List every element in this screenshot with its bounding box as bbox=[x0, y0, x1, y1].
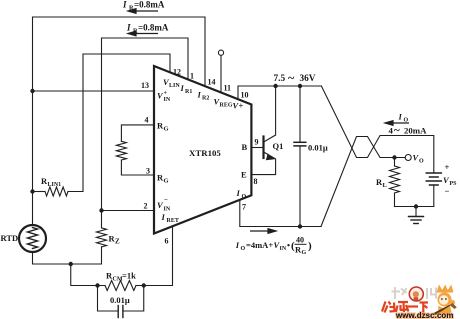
svg-text:): ) bbox=[308, 240, 312, 252]
svg-text:I: I bbox=[161, 212, 166, 222]
svg-text:−: − bbox=[164, 196, 168, 204]
svg-text:I: I bbox=[126, 22, 131, 32]
svg-text:=0.8mA: =0.8mA bbox=[138, 22, 169, 32]
svg-text:=4mA+: =4mA+ bbox=[246, 240, 273, 250]
svg-text:I: I bbox=[122, 0, 127, 10]
svg-text:I: I bbox=[180, 83, 185, 93]
svg-text:13: 13 bbox=[141, 81, 149, 90]
svg-text:40: 40 bbox=[296, 236, 304, 245]
svg-text:Q1: Q1 bbox=[273, 141, 284, 151]
svg-text:10: 10 bbox=[241, 91, 249, 100]
svg-text:R1: R1 bbox=[185, 89, 192, 95]
svg-text:+: + bbox=[445, 162, 450, 172]
svg-text:B: B bbox=[242, 142, 248, 152]
svg-text:+: + bbox=[164, 91, 168, 97]
svg-text:0.01μ: 0.01μ bbox=[308, 143, 328, 153]
svg-text:IN: IN bbox=[164, 97, 171, 103]
svg-text:7.5: 7.5 bbox=[274, 74, 286, 84]
svg-text:RET: RET bbox=[167, 218, 179, 224]
svg-text:14: 14 bbox=[208, 78, 216, 87]
svg-text:O: O bbox=[241, 246, 246, 252]
svg-text:G: G bbox=[164, 126, 169, 133]
svg-text:4: 4 bbox=[145, 116, 149, 125]
svg-text:7: 7 bbox=[242, 203, 246, 212]
svg-text:LIN: LIN bbox=[169, 83, 180, 89]
svg-text:6: 6 bbox=[165, 237, 169, 246]
svg-text:=1k: =1k bbox=[122, 271, 136, 281]
svg-text:0.01μ: 0.01μ bbox=[110, 295, 130, 305]
svg-text:I: I bbox=[197, 90, 202, 100]
svg-text:36V: 36V bbox=[300, 74, 316, 84]
svg-text:PS: PS bbox=[450, 181, 458, 187]
svg-text:11: 11 bbox=[224, 84, 232, 93]
svg-text:+: + bbox=[239, 101, 244, 111]
svg-text:•: • bbox=[287, 240, 290, 250]
svg-text:REG: REG bbox=[220, 103, 233, 109]
svg-text:3: 3 bbox=[146, 167, 150, 176]
svg-text:O: O bbox=[242, 194, 247, 200]
svg-text:L: L bbox=[383, 182, 388, 189]
svg-text:4: 4 bbox=[389, 126, 394, 136]
svg-text:~: ~ bbox=[394, 125, 400, 137]
svg-text:LIN1: LIN1 bbox=[48, 182, 62, 188]
svg-text:−: − bbox=[445, 186, 450, 196]
svg-text:IN: IN bbox=[280, 246, 287, 252]
svg-text:9: 9 bbox=[255, 138, 259, 147]
svg-text:12: 12 bbox=[173, 68, 181, 77]
svg-text:E: E bbox=[241, 170, 247, 180]
svg-text:=0.8mA: =0.8mA bbox=[134, 0, 165, 10]
svg-text:RTD: RTD bbox=[1, 233, 19, 243]
svg-text:~: ~ bbox=[288, 71, 295, 85]
svg-text:R2: R2 bbox=[202, 96, 209, 102]
svg-text:G: G bbox=[302, 250, 307, 256]
svg-text:G: G bbox=[164, 178, 169, 185]
svg-text:1: 1 bbox=[190, 72, 194, 81]
svg-text:8: 8 bbox=[254, 177, 258, 186]
svg-text:20mA: 20mA bbox=[404, 126, 427, 136]
svg-text:O: O bbox=[419, 159, 424, 165]
svg-text:2: 2 bbox=[144, 202, 148, 211]
svg-text:O: O bbox=[404, 118, 409, 124]
svg-text:I: I bbox=[398, 112, 403, 122]
svg-text:I: I bbox=[235, 240, 240, 250]
svg-text:Z: Z bbox=[115, 238, 120, 246]
svg-text:XTR105: XTR105 bbox=[189, 148, 221, 158]
svg-text:www.dzsc.com: www.dzsc.com bbox=[395, 311, 453, 319]
svg-text:I: I bbox=[236, 188, 241, 198]
